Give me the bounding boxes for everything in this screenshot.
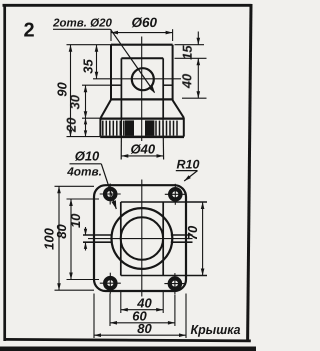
svg-text:80: 80 (54, 224, 69, 239)
ext hole bottom (67, 279, 100, 281)
boss circle O60 (111, 208, 172, 269)
frame top border (3, 4, 252, 7)
dimension 60 line (110, 321, 175, 325)
svg-text:Ø60: Ø60 (132, 15, 158, 30)
O60 dimension text (132, 15, 158, 30)
circle horizontal centerline (93, 78, 181, 80)
dimension 100 line (57, 186, 61, 290)
base top edge (100, 117, 184, 119)
dimension 80 text (left) (54, 224, 69, 239)
ext 40 right (162, 292, 164, 314)
bore circle O40 (121, 217, 163, 259)
left slant (101, 100, 111, 118)
ear lines right (171, 235, 193, 242)
hatch right band (156, 121, 177, 136)
svg-text:15: 15 (180, 45, 195, 60)
ext right y98.2 (182, 97, 207, 99)
ext 40 left (120, 292, 122, 314)
bolt hole bottom-right O10 (164, 273, 185, 294)
task number 2 (23, 20, 34, 42)
hole circle O20 (132, 68, 154, 90)
ext step (y85.2) (82, 84, 111, 86)
dimension 35 line (95, 45, 99, 79)
dimension 30 line (84, 85, 88, 118)
bore right wall (162, 58, 164, 118)
dimension 90 text (55, 82, 70, 97)
svg-text:70: 70 (185, 225, 200, 240)
svg-text:20: 20 (64, 117, 79, 133)
ext line top (y44.7) (67, 44, 112, 46)
plan horizontal centerline (88, 238, 193, 240)
boss rect bottom edge + ext (121, 275, 207, 277)
part name Kryshka (191, 322, 241, 337)
internal step right (163, 84, 172, 86)
boss rect right edge (162, 202, 164, 276)
svg-text:80: 80 (137, 321, 152, 336)
svg-text:Крышка: Крышка (191, 322, 241, 337)
base right edge (183, 118, 185, 137)
O40 dimension text (131, 141, 156, 156)
dimension 15 text (180, 45, 195, 60)
dimension 30 text (68, 94, 83, 109)
O40 extension right (162, 118, 165, 159)
ear lines left (83, 235, 112, 242)
ext 60 left (109, 294, 111, 327)
label O10 text (75, 149, 100, 164)
dimension 90 line (69, 45, 73, 137)
dimension 100 text (42, 227, 57, 249)
block right edge (172, 45, 174, 100)
frame right border (248, 4, 251, 341)
svg-text:Ø10: Ø10 (75, 149, 100, 164)
dimension 10 line (84, 227, 87, 251)
leader shelf (53, 28, 111, 30)
label O10 underline (70, 163, 102, 165)
label R10 underline (176, 170, 198, 172)
svg-text:R10: R10 (177, 157, 200, 171)
dimension 20 line (84, 118, 87, 136)
svg-text:2: 2 (23, 20, 34, 42)
ext hole top (67, 198, 100, 200)
block top edge (111, 44, 173, 46)
dimension 35 text (81, 59, 96, 74)
dimension 40 line (bottom) (121, 308, 163, 312)
block bottom edge (110, 98, 173, 100)
dimension 80 line (left) (69, 199, 73, 280)
label R10 text (177, 157, 200, 171)
plate outline rounded square (94, 185, 186, 291)
dimension 60 text (132, 308, 147, 323)
hatch left band (103, 121, 124, 136)
internal step left (111, 84, 121, 86)
dimension 40 text (179, 73, 194, 89)
leader to corner radius (184, 171, 197, 181)
ext line bottom (y136.6) (67, 136, 101, 138)
frame bottom border (4, 339, 251, 341)
svg-text:90: 90 (55, 82, 70, 97)
bore left wall (120, 58, 122, 118)
ext right y58.3 (175, 57, 207, 59)
ext base top left (82, 117, 100, 119)
O60 extension right (172, 29, 174, 41)
dimension 15/40 line (197, 32, 201, 99)
dimension 40 text (bottom) (136, 295, 152, 310)
dimension 20 text (64, 117, 79, 133)
O40 dimension line (121, 154, 163, 158)
ext 80 right (185, 294, 187, 339)
boss rect top edge + ext (121, 201, 207, 203)
O60 dimension line (111, 31, 173, 35)
bolt hole bottom-left O10 (100, 273, 121, 294)
svg-text:2отв. Ø20: 2отв. Ø20 (52, 17, 112, 29)
label 4otv text (66, 164, 102, 178)
ext right y44.7 (175, 44, 205, 46)
page bottom edge band (0, 347, 256, 351)
svg-text:30: 30 (68, 94, 83, 109)
O60 extension left (110, 29, 112, 41)
svg-text:10: 10 (68, 213, 83, 228)
bolt hole top-right O10 (165, 184, 186, 205)
hatch right solid block (145, 120, 154, 135)
plan vertical centerline (141, 180, 143, 297)
frame left border (3, 4, 6, 341)
block left edge (110, 45, 112, 100)
front view vertical centerline (141, 37, 143, 142)
base left edge (99, 118, 101, 137)
base bottom edge (100, 136, 184, 139)
leader line to circle (111, 29, 156, 93)
hatch left solid block (125, 120, 134, 135)
ext 60 right (174, 295, 176, 327)
svg-text:40: 40 (179, 73, 194, 89)
dimension 10 text (68, 213, 83, 228)
right slant (173, 100, 184, 118)
dimension 70 line (201, 202, 205, 276)
svg-text:35: 35 (81, 59, 96, 74)
leader to bolt hole (101, 164, 116, 209)
boss rect left edge (120, 202, 122, 276)
dimension 80 text (bottom) (137, 321, 152, 336)
leader text 2otv O20 (52, 17, 112, 29)
ext plate top left (55, 185, 95, 187)
bolt hole top-left O10 (100, 184, 121, 205)
dimension 70 text (185, 225, 200, 240)
ext 80 left (93, 294, 95, 339)
svg-text:Ø40: Ø40 (131, 141, 156, 156)
ext plate bottom left (55, 289, 95, 291)
O40 extension left (120, 118, 122, 159)
dimension 80 line (bottom) (94, 333, 186, 337)
svg-text:4отв.: 4отв. (66, 164, 102, 178)
bore ceiling (121, 57, 163, 59)
